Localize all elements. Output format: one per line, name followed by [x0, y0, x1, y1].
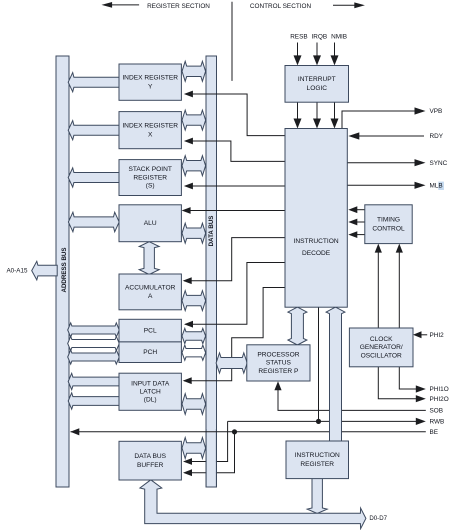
arrow stack to data bus: [182, 156, 206, 176]
processor status register P: [247, 345, 310, 381]
data bus overdraw: [206, 429, 216, 487]
wire IRQB: [313, 43, 321, 66]
bus D0-D7 with arrow into data bus buffer: [140, 480, 366, 529]
wire BE junction to data bus buffer: [183, 432, 235, 476]
svg-text:MLB: MLB: [430, 182, 443, 189]
data bus: [206, 56, 217, 487]
svg-text:INDEX REGISTER: INDEX REGISTER: [122, 123, 178, 130]
wire VPB: [342, 107, 426, 128]
svg-text:OSCILLATOR: OSCILLATOR: [361, 352, 402, 359]
section divider: [231, 2, 233, 81]
svg-text:STACK POINT: STACK POINT: [128, 166, 171, 173]
svg-text:DATA BUS: DATA BUS: [134, 453, 166, 460]
label RWB: [430, 419, 445, 426]
label PHI2O: [430, 396, 449, 403]
junction dot BE: [232, 429, 237, 434]
svg-text:LATCH: LATCH: [140, 389, 161, 396]
svg-text:INTERRUPT: INTERRUPT: [298, 76, 336, 83]
clock generator oscillator: [349, 328, 413, 367]
label D0-D7: [369, 515, 387, 522]
arrow index Y to address bus: [68, 73, 120, 92]
label PHI1O: [430, 386, 449, 393]
svg-text:LOGIC: LOGIC: [307, 85, 328, 92]
svg-text:CONTROL SECTION: CONTROL SECTION: [250, 3, 312, 10]
arrow PCH to data bus: [182, 345, 206, 360]
wire decode to RWB: [318, 307, 320, 421]
svg-text:BE: BE: [430, 429, 439, 436]
register section label: [147, 3, 210, 10]
svg-text:DATA BUS: DATA BUS: [208, 216, 215, 247]
arrow instruction register to data bus D0-D7: [307, 478, 327, 513]
control section arrow: [333, 2, 365, 8]
label RESB: [290, 34, 307, 41]
wire clock to timing 2: [396, 244, 403, 328]
wire PHI1O: [399, 367, 426, 393]
svg-text:REGISTER SECTION: REGISTER SECTION: [147, 3, 210, 10]
svg-text:PHI2: PHI2: [430, 332, 445, 339]
index register X: [119, 112, 181, 149]
index register Y: [119, 64, 181, 100]
svg-text:(S): (S): [146, 182, 155, 189]
wire RDY: [348, 132, 424, 139]
svg-text:RESB: RESB: [290, 34, 307, 41]
wire interrupt logic to decode 3: [331, 102, 339, 128]
wire timing control to decode 2: [348, 219, 365, 226]
data bus buffer: [119, 441, 181, 480]
svg-text:RWB: RWB: [430, 419, 445, 426]
wire PHI2O: [378, 367, 426, 403]
svg-text:INDEX REGISTER: INDEX REGISTER: [122, 75, 178, 82]
wire SYNC: [347, 159, 425, 166]
interrupt logic: [285, 66, 349, 103]
arrow ALU to accumulator: [139, 242, 159, 275]
instruction register: [286, 441, 349, 479]
PCH: [119, 342, 181, 363]
svg-text:PCL: PCL: [144, 327, 157, 334]
svg-text:ALU: ALU: [144, 220, 157, 227]
svg-text:RDY: RDY: [430, 133, 444, 140]
timing control: [365, 205, 412, 244]
wire decode to PCL: [184, 263, 285, 328]
svg-text:X: X: [148, 131, 153, 138]
svg-text:CLOCK: CLOCK: [370, 336, 393, 343]
svg-text:PCH: PCH: [143, 349, 157, 356]
svg-text:CONTROL: CONTROL: [372, 225, 405, 232]
svg-text:ADDRESS BUS: ADDRESS BUS: [61, 247, 68, 292]
arrow PCL to address bus 2: [68, 336, 120, 350]
arrow PCL to address bus 1: [68, 323, 120, 337]
svg-text:A: A: [148, 293, 153, 300]
label address bus: [61, 247, 68, 292]
PCL: [119, 319, 181, 342]
svg-text:INPUT DATA: INPUT DATA: [131, 380, 170, 387]
arrow input data latch to address bus 2: [68, 393, 120, 409]
label IRQB: [311, 34, 327, 41]
arrow decode to status register: [288, 307, 307, 345]
wire decode to accumulator: [183, 238, 285, 285]
wire SOB: [274, 381, 425, 410]
label NMIB: [331, 34, 347, 41]
arrow PCH to address bus: [68, 350, 120, 364]
wire clock to timing 1: [375, 244, 382, 328]
svg-text:STATUS: STATUS: [266, 360, 292, 367]
wire NMIB: [331, 43, 339, 66]
arrow index Y to data bus: [182, 61, 206, 81]
wire decode to index register Y: [184, 91, 285, 136]
wire timing control to decode 3: [348, 231, 365, 238]
label RDY: [430, 133, 444, 140]
svg-text:Y: Y: [148, 83, 153, 90]
wire RWB: [228, 418, 426, 425]
label A0-A15: [6, 267, 28, 274]
svg-text:IRQB: IRQB: [311, 34, 327, 41]
svg-text:A0-A15: A0-A15: [6, 267, 28, 274]
wire interrupt logic to decode 1: [294, 102, 302, 128]
input data latch DL: [119, 373, 181, 410]
svg-text:SYNC: SYNC: [430, 160, 448, 167]
svg-text:REGISTER: REGISTER: [300, 461, 334, 468]
svg-text:NMIB: NMIB: [331, 34, 347, 41]
arrow data bus buffer to data bus: [182, 438, 206, 459]
label PHI2: [430, 332, 445, 339]
stack point register S: [119, 160, 181, 196]
arrow instruction register to decode: [326, 307, 345, 441]
arrow ALU to address bus: [68, 212, 119, 232]
arrow stack to address bus: [68, 168, 120, 187]
wire PHI2 input: [413, 331, 427, 338]
label VPB: [430, 108, 443, 115]
wire timing control to decode 1: [348, 206, 365, 213]
svg-text:DECODE: DECODE: [302, 250, 331, 257]
wire decode to stack register: [184, 183, 285, 190]
svg-text:PHI2O: PHI2O: [430, 396, 449, 403]
label SOB: [430, 408, 444, 415]
instruction decode: [285, 129, 347, 308]
wire RWB to data bus buffer: [183, 421, 228, 465]
arrow index X to data bus: [182, 110, 206, 130]
wire decode to input data latch: [183, 288, 285, 385]
svg-text:REGISTER P: REGISTER P: [258, 368, 299, 375]
svg-text:VPB: VPB: [430, 108, 443, 115]
arrow index X to address bus: [68, 121, 120, 140]
arrow input data latch to data bus: [182, 394, 206, 415]
ALU: [119, 205, 181, 242]
wire BE: [70, 428, 426, 435]
arrow accumulator to data bus: [182, 291, 206, 311]
svg-text:D0-D7: D0-D7: [369, 515, 387, 522]
junction dot RWB: [316, 419, 321, 424]
register section arrow: [102, 2, 140, 8]
wire decode to index register X: [184, 138, 285, 162]
svg-text:GENERATOR/: GENERATOR/: [360, 344, 403, 351]
svg-text:BUFFER: BUFFER: [137, 462, 164, 469]
svg-text:(DL): (DL): [144, 397, 157, 404]
svg-text:INSTRUCTION: INSTRUCTION: [294, 238, 339, 245]
svg-text:PHI1O: PHI1O: [430, 386, 449, 393]
arrow status register to data bus: [216, 353, 247, 373]
arrow A0-A15: [32, 261, 58, 280]
label BE: [430, 429, 439, 436]
wire RESB: [294, 43, 302, 66]
arrow PCL to data bus: [182, 328, 206, 343]
arrow input data latch to address bus 1: [68, 373, 120, 389]
label MLB: [430, 182, 444, 190]
svg-text:ACCUMULATOR: ACCUMULATOR: [125, 284, 176, 291]
arrow ALU to data bus: [182, 223, 206, 243]
label SYNC: [430, 160, 448, 167]
address bus: [56, 56, 69, 487]
label data bus: [208, 216, 215, 247]
svg-text:INSTRUCTION: INSTRUCTION: [295, 452, 340, 459]
wire MLB: [347, 182, 425, 189]
control section label: [250, 3, 312, 10]
svg-text:PROCESSOR: PROCESSOR: [257, 351, 299, 358]
svg-text:TIMING: TIMING: [377, 217, 400, 224]
accumulator A: [119, 274, 181, 310]
wire decode to ALU: [182, 207, 285, 214]
svg-text:REGISTER: REGISTER: [133, 174, 167, 181]
wire interrupt logic to decode 2: [313, 102, 321, 128]
svg-text:SOB: SOB: [430, 408, 444, 415]
